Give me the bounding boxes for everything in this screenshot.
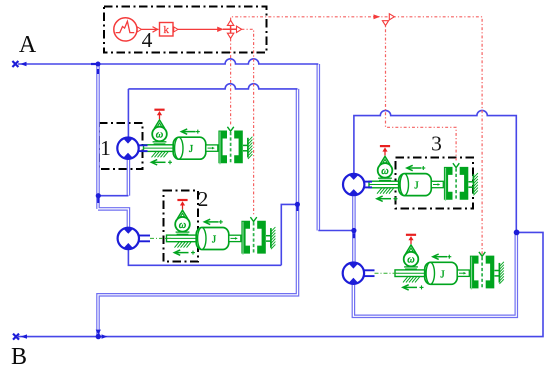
signal wire: distribution top run: [231, 17, 483, 256]
svg-text:ω: ω: [381, 166, 388, 177]
wire: pump P3 bottom to pump P4 top: [352, 195, 356, 263]
subsystem frame 3 (inertia/clutch group): [396, 158, 474, 209]
port B: [13, 334, 27, 340]
shaft J1 to clutch: [206, 145, 218, 151]
signal wire: drop to clutch CL2: [242, 29, 254, 215]
torque direction arrow upper 2: [204, 219, 223, 224]
wire: branch to pump P2 top port: [98, 209, 128, 228]
wire: pump P4 bottom loop to right riser: [353, 232, 516, 316]
svg-text:ω: ω: [156, 130, 163, 141]
sensor reference mark (fixed) 2: [177, 200, 187, 209]
gain block k: [160, 23, 179, 37]
wire: junction to pump P1 link: [98, 195, 128, 197]
label 3: [431, 132, 442, 156]
svg-text:ω: ω: [179, 220, 186, 231]
node: A-line right junction: [351, 228, 356, 238]
speed sensor W2: [175, 210, 190, 234]
signal wire: drop to clutch CL1: [230, 39, 232, 126]
torque direction arrow lower 1: [151, 160, 172, 165]
signal wire: drop to clutch CL3: [386, 21, 457, 161]
node: B-line right junction: [514, 230, 520, 236]
support flange / bearing 3: [369, 181, 400, 194]
svg-text:A: A: [19, 32, 37, 58]
inertia J2: [196, 228, 229, 250]
shaft line pump P2 to gearbox: [150, 237, 171, 239]
support flange / bearing 4: [395, 270, 426, 283]
wire: line A to pump P3/P4 junction: [318, 230, 354, 232]
clutch CL4: [470, 252, 494, 290]
wire: pump P1 top port riser: [127, 89, 129, 138]
wire: branch from loop to pump P2 bottom run: [281, 204, 297, 265]
wire: pump P1 loop top run: [128, 84, 297, 89]
torque direction arrow upper 3: [407, 165, 426, 170]
sensor reference mark (fixed) 1: [154, 110, 164, 119]
wall fixed mount 2: [266, 227, 275, 249]
signal replicator node: [223, 20, 242, 38]
svg-text:4: 4: [142, 28, 153, 52]
clutch CL1: [218, 127, 242, 165]
wire: branch up to pump P1 bottom port: [127, 159, 131, 196]
torque direction arrow lower 2: [174, 250, 195, 255]
shaft J2 to clutch: [229, 235, 241, 241]
speed sensor W1: [152, 120, 167, 144]
torque direction arrow lower 3: [377, 196, 398, 201]
svg-text:ω: ω: [407, 255, 414, 266]
shaft line pump P4 to gearbox: [375, 272, 400, 274]
clutch CL2: [241, 217, 265, 255]
svg-text:B: B: [11, 344, 27, 369]
svg-text:k: k: [163, 24, 169, 36]
sensor reference mark (fixed) 4: [406, 235, 416, 244]
wire: line A main run: [98, 59, 318, 64]
pump P1: [117, 138, 147, 159]
shaft J3 to clutch: [431, 181, 443, 187]
wire: gain to replicator node: [178, 27, 224, 32]
wire: line A left down-branch: [96, 64, 100, 209]
signal generator source (time table icon): [114, 18, 142, 41]
wire: loop right side down to line B: [98, 89, 298, 337]
pump P3: [343, 174, 372, 195]
svg-text:J: J: [212, 234, 217, 246]
speed sensor W4: [404, 245, 419, 269]
wall fixed mount 4: [495, 262, 504, 284]
wire: line A right drop: [316, 64, 320, 231]
inertia J3: [399, 174, 432, 196]
subsystem frame 1 (pump P1 group): [99, 123, 143, 169]
wire: line B main run: [18, 232, 543, 336]
svg-text:3: 3: [431, 132, 442, 156]
wall fixed mount 3: [469, 173, 478, 195]
label 1: [100, 136, 111, 160]
torque direction arrow lower 4: [403, 285, 424, 290]
torque direction arrow upper 1: [181, 129, 200, 134]
support flange / bearing 1: [144, 145, 175, 158]
wire: pump P2 bottom port run: [128, 249, 281, 265]
pump P2: [118, 228, 150, 249]
node: A-line left junction: [91, 62, 101, 75]
svg-text:J: J: [414, 180, 419, 192]
wire: port A stub: [18, 63, 98, 65]
pump P4: [343, 263, 375, 284]
subsystem frame 2 (speed sensor group): [164, 191, 199, 262]
node: left branch junction: [96, 193, 101, 203]
port A: [12, 61, 26, 67]
support flange / bearing 2: [167, 235, 198, 248]
shaft J4 to clutch: [457, 270, 469, 276]
label 2: [198, 187, 209, 211]
signal arrow on top run: [374, 14, 381, 19]
svg-text:1: 1: [100, 136, 111, 160]
wall fixed mount 1: [243, 137, 252, 159]
signal branch triangle at node to CL3: [382, 14, 394, 26]
inertia J1: [173, 137, 206, 159]
label A: [19, 32, 37, 58]
wire: pump P3 top port loop: [354, 110, 516, 232]
label 4: [142, 28, 153, 52]
wire: source to gain k: [142, 27, 159, 33]
clutch CL3: [444, 163, 468, 201]
label B: [11, 344, 27, 369]
inertia J4: [425, 262, 458, 284]
svg-text:J: J: [440, 268, 445, 280]
svg-text:J: J: [189, 143, 194, 155]
node: B-line junction: [96, 330, 108, 340]
speed sensor W3: [378, 156, 393, 180]
torque direction arrow upper 4: [433, 254, 452, 259]
subsystem frame 4 (signal source group): [104, 7, 267, 53]
sensor reference mark (fixed) 3: [380, 146, 390, 155]
node: loop branch junction: [295, 202, 300, 211]
svg-text:2: 2: [198, 187, 209, 211]
wire cores (double-line white centres): [98, 64, 516, 337]
